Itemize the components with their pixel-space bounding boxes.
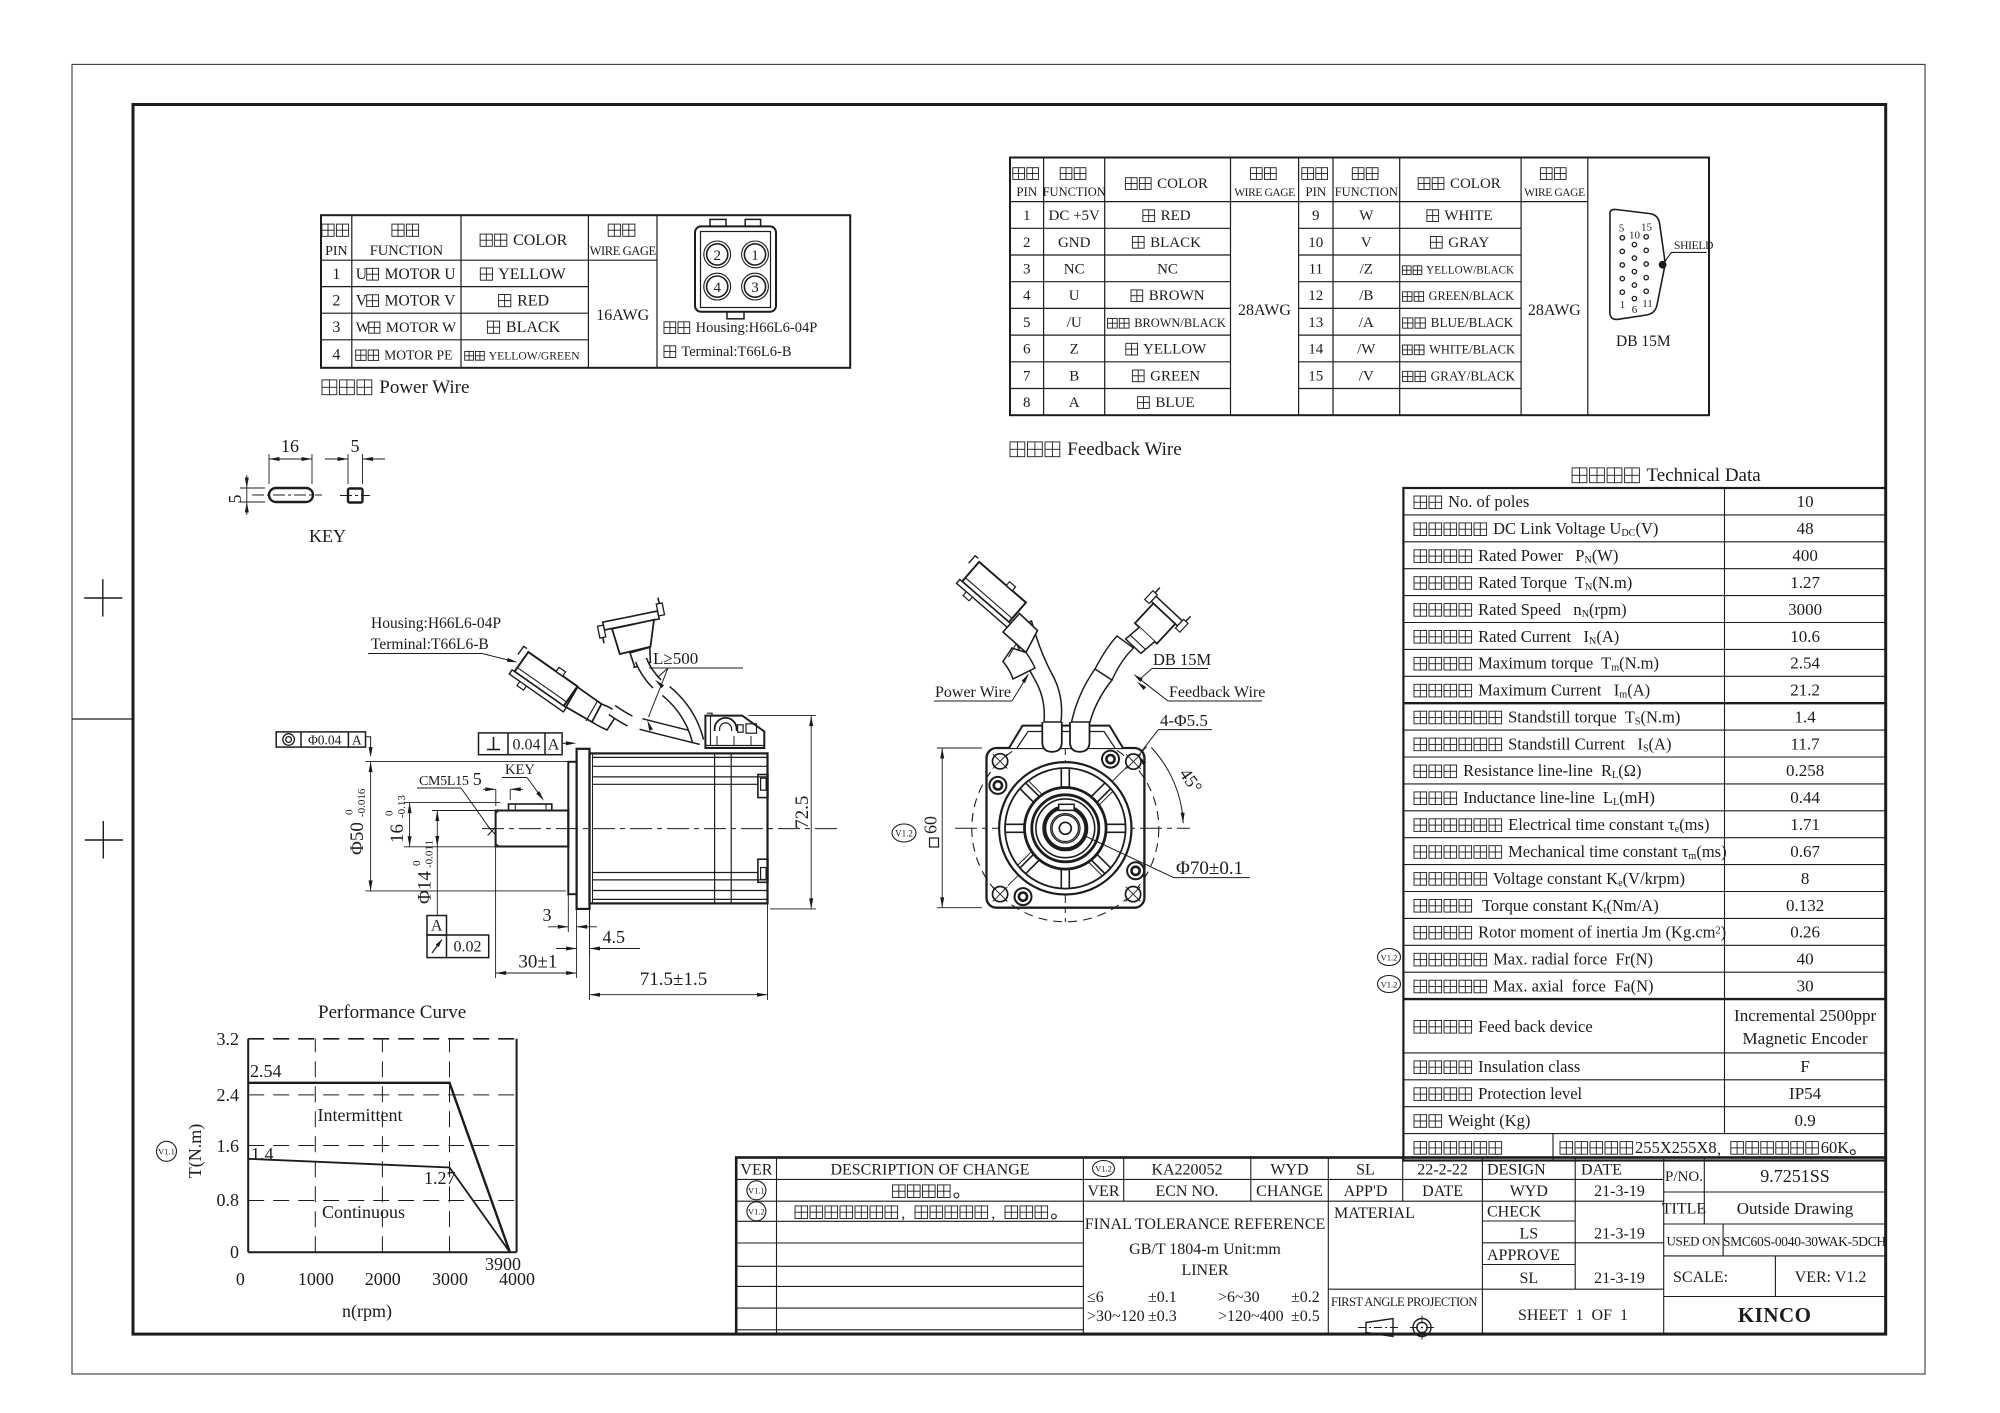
svg-text:APPROVE: APPROVE [1487, 1247, 1560, 1264]
inner drawing frame [133, 105, 1886, 1335]
svg-text:W: W [1359, 208, 1374, 224]
svg-text:±0.1: ±0.1 [1148, 1289, 1177, 1306]
tech data row 4 [1414, 577, 1427, 590]
svg-text:0.67: 0.67 [1790, 842, 1820, 861]
front power boot [1003, 614, 1038, 653]
svg-text:V1.2: V1.2 [748, 1207, 765, 1217]
svg-text:V1.2: V1.2 [895, 829, 913, 839]
svg-text:Max. radial force Fr(N): Max. radial force Fr(N) [1489, 950, 1653, 969]
svg-text:PIN: PIN [1305, 184, 1327, 199]
front view square flange [987, 748, 1145, 908]
svg-text:KEY: KEY [309, 526, 346, 546]
svg-text:SHEET 1 OF 1: SHEET 1 OF 1 [1518, 1307, 1628, 1324]
svg-text:Protection level: Protection level [1474, 1084, 1583, 1103]
front feedback cable upper [1095, 636, 1134, 680]
svg-text:0.9: 0.9 [1794, 1111, 1815, 1130]
DB15 pins column 6-10 [1632, 242, 1636, 246]
front shaft circles [1044, 807, 1086, 849]
right title column grid [1664, 1158, 1886, 1297]
rear clip top [758, 775, 768, 798]
svg-text:V1.1: V1.1 [748, 1186, 765, 1196]
svg-text:7: 7 [1023, 368, 1031, 384]
svg-text:Inductance line-line LL(mH): Inductance line-line LL(mH) [1459, 788, 1655, 808]
svg-text:Z: Z [1070, 342, 1079, 358]
projection target symbol [1410, 1316, 1434, 1340]
svg-text:,: , [991, 1205, 995, 1222]
svg-text:0: 0 [230, 1242, 239, 1262]
svg-text:YELLOW/BLACK: YELLOW/BLACK [1424, 265, 1514, 277]
svg-text:V1.2: V1.2 [1381, 953, 1398, 963]
front view bolt circle dashed [972, 735, 1159, 922]
motor spigot side view [568, 762, 576, 894]
svg-text:1.6: 1.6 [217, 1136, 240, 1156]
svg-text:VER: VER [740, 1162, 772, 1179]
front cover inner circles [1025, 788, 1107, 870]
technical data heading [1572, 468, 1587, 483]
svg-text:3900: 3900 [485, 1254, 521, 1274]
svg-text:4.5: 4.5 [603, 927, 626, 947]
svg-text:16: 16 [387, 824, 408, 843]
tech data row 22 [1414, 1088, 1427, 1101]
svg-text:MOTOR W: MOTOR W [382, 320, 456, 336]
feedback connector side view DB15 [594, 597, 667, 644]
continuous curve [248, 1159, 510, 1252]
svg-text:0: 0 [384, 810, 396, 816]
power connector housing label [664, 322, 676, 334]
svg-text:MOTOR U: MOTOR U [381, 266, 456, 283]
svg-text:60K: 60K [1821, 1138, 1850, 1157]
revision V1.2 description [795, 1206, 808, 1219]
svg-text:TITLE: TITLE [1662, 1201, 1706, 1218]
tech data V1.2 flag row 18 [1378, 949, 1401, 966]
svg-text:GRAY: GRAY [1445, 235, 1490, 251]
technical data table grid [1403, 488, 1885, 1161]
V1.1 flag performance curve [157, 1141, 177, 1161]
svg-text:9.7251SS: 9.7251SS [1760, 1166, 1830, 1186]
ECN row V1.2 flag [1093, 1161, 1115, 1177]
svg-text:No. of poles: No. of poles [1444, 492, 1529, 511]
svg-text:14: 14 [1308, 342, 1324, 358]
svg-text:>6~30: >6~30 [1218, 1289, 1260, 1306]
svg-text:0.8: 0.8 [217, 1190, 240, 1210]
svg-text:21-3-19: 21-3-19 [1594, 1270, 1645, 1287]
tech data row 7 [1414, 657, 1427, 670]
tech data row 5 [1414, 604, 1427, 617]
tech data row 9 [1414, 711, 1427, 724]
svg-text:RED: RED [1157, 208, 1191, 224]
svg-text:CHECK: CHECK [1487, 1204, 1542, 1221]
svg-text:1.4: 1.4 [1794, 708, 1816, 727]
power table header FUNCTION [392, 224, 404, 236]
svg-text:0.132: 0.132 [1786, 896, 1824, 915]
svg-text:Magnetic Encoder: Magnetic Encoder [1743, 1029, 1868, 1048]
svg-text:V: V [1361, 235, 1372, 251]
key section pill [269, 488, 313, 502]
DB15 connector shell [1610, 209, 1665, 319]
svg-text:4-Φ5.5: 4-Φ5.5 [1160, 711, 1208, 730]
svg-text:V1.1: V1.1 [158, 1147, 175, 1157]
svg-text:DC +5V: DC +5V [1049, 208, 1101, 224]
svg-text:5: 5 [473, 769, 482, 789]
svg-text:11.7: 11.7 [1791, 734, 1821, 753]
tech data row 19 [1414, 980, 1427, 993]
svg-text:>120~400: >120~400 [1218, 1308, 1284, 1325]
svg-text:DB 15M: DB 15M [1616, 333, 1671, 350]
svg-text:FUNCTION: FUNCTION [1043, 185, 1106, 199]
svg-text:21-3-19: 21-3-19 [1594, 1226, 1645, 1243]
power table header WIRE GAGE [608, 224, 620, 236]
motor body side view [590, 753, 768, 903]
svg-text:SCALE:: SCALE: [1673, 1269, 1728, 1286]
dim 3 spigot [567, 894, 569, 932]
svg-text:2: 2 [332, 292, 340, 309]
svg-text:3: 3 [751, 280, 759, 296]
svg-text:400: 400 [1792, 546, 1818, 565]
registration cross upper-left [84, 597, 122, 599]
svg-text:Continuous: Continuous [322, 1202, 405, 1222]
key square centerline [340, 495, 370, 497]
concentricity frame phi0.04 A [276, 732, 372, 758]
svg-text:Feedback Wire: Feedback Wire [1063, 439, 1182, 460]
terminal box on motor top [705, 713, 764, 748]
dim square 60 [937, 747, 982, 749]
svg-text:Φ14: Φ14 [415, 871, 436, 904]
svg-text:A: A [548, 737, 560, 754]
svg-text:Intermittent: Intermittent [318, 1105, 403, 1125]
svg-text:60: 60 [921, 816, 941, 834]
title block outline [736, 1158, 1886, 1335]
front cover ribs [1107, 823, 1125, 825]
svg-text:>30~120: >30~120 [1087, 1308, 1145, 1325]
svg-text:CM5L15: CM5L15 [419, 774, 469, 789]
svg-text:V1.2: V1.2 [1095, 1164, 1112, 1174]
svg-text:255X255X8: 255X255X8 [1635, 1138, 1717, 1157]
tech data row 21 [1414, 1061, 1427, 1074]
svg-text:WIRE GAGE: WIRE GAGE [1234, 187, 1295, 199]
svg-text:Incremental 2500ppr: Incremental 2500ppr [1734, 1006, 1876, 1025]
tech data row 10 [1414, 738, 1427, 751]
svg-text:3.2: 3.2 [217, 1029, 240, 1049]
svg-text:21-3-19: 21-3-19 [1594, 1183, 1645, 1200]
power cable boot [566, 687, 602, 722]
svg-text:3: 3 [332, 319, 340, 336]
dim 45 degree arc [1151, 748, 1183, 824]
svg-text:Standstill torque TS(N.m): Standstill torque TS(N.m) [1504, 708, 1680, 728]
svg-text:LINER: LINER [1181, 1262, 1228, 1279]
revision V1.1 flag [747, 1181, 766, 1200]
svg-text:W: W [356, 320, 370, 336]
front view cable stubs [1042, 722, 1062, 752]
svg-text:5: 5 [1619, 223, 1625, 235]
dim 4.5 flange [589, 909, 591, 955]
svg-text:Electrical time constant τe(ms: Electrical time constant τe(ms) [1504, 815, 1709, 835]
front view connector bracket [1009, 726, 1123, 748]
svg-text:1: 1 [751, 248, 759, 264]
svg-text:L≥500: L≥500 [653, 649, 698, 668]
front feedback DB15 connector [1116, 586, 1193, 663]
revision V1.1 description [893, 1185, 906, 1198]
svg-text:Rated Current IN(A): Rated Current IN(A) [1474, 627, 1619, 647]
svg-text:10: 10 [1629, 230, 1641, 242]
front feedback cable [1072, 669, 1113, 722]
feedback connector hood [612, 620, 654, 654]
feedback wire caption [1010, 442, 1025, 457]
svg-text:3000: 3000 [432, 1269, 468, 1289]
front shaft keyway [1059, 804, 1074, 810]
svg-text:Φ70±0.1: Φ70±0.1 [1176, 858, 1243, 879]
svg-text:/Z: /Z [1360, 262, 1373, 278]
svg-text:PIN: PIN [325, 244, 348, 259]
svg-text:1000: 1000 [298, 1269, 334, 1289]
dim 72.5 right [749, 715, 816, 717]
shaft key side view [509, 804, 552, 811]
svg-text:±0.5: ±0.5 [1291, 1308, 1320, 1325]
svg-text:0.258: 0.258 [1786, 761, 1824, 780]
svg-text:Feedback Wire: Feedback Wire [1169, 684, 1265, 701]
tech data row 8 [1414, 684, 1427, 697]
svg-text:8: 8 [1023, 395, 1031, 411]
tech data row 23 [1414, 1115, 1427, 1128]
tech data row 11 [1414, 765, 1427, 778]
svg-text:SL: SL [1356, 1162, 1375, 1179]
revision table [736, 1158, 1083, 1335]
key pill centerline [252, 494, 322, 496]
svg-text:COLOR: COLOR [509, 232, 568, 249]
svg-text:SHIELD: SHIELD [1674, 240, 1713, 252]
power connector terminal label [664, 346, 676, 358]
power table header COLOR [480, 234, 492, 246]
front view mounting holes with cross [993, 754, 1008, 769]
svg-text:1.27: 1.27 [1790, 573, 1820, 592]
svg-text:Weight (Kg): Weight (Kg) [1444, 1111, 1530, 1130]
svg-text:Max. axial force Fa(N): Max. axial force Fa(N) [1489, 976, 1653, 995]
svg-text:COLOR: COLOR [1446, 176, 1501, 192]
svg-text:BROWN: BROWN [1145, 288, 1205, 304]
motor flange side view [577, 749, 590, 909]
DB15 pins column 1-5 [1620, 236, 1624, 240]
svg-text:WHITE: WHITE [1441, 208, 1493, 224]
svg-text:Housing:H66L6-04P: Housing:H66L6-04P [371, 615, 501, 632]
svg-text:U: U [356, 266, 367, 283]
svg-text:A: A [352, 733, 362, 748]
svg-text:KA220052: KA220052 [1151, 1162, 1222, 1179]
svg-text:DATE: DATE [1422, 1183, 1463, 1200]
tech data V1.2 flag row 19 [1378, 976, 1401, 993]
svg-text:Rated Speed nN(rpm): Rated Speed nN(rpm) [1474, 600, 1627, 620]
svg-text:CHANGE: CHANGE [1256, 1183, 1323, 1200]
revision V1.2 flag [747, 1202, 766, 1221]
tech data row 1 [1414, 496, 1427, 509]
svg-text:3: 3 [543, 905, 552, 925]
svg-text:≤6: ≤6 [1087, 1289, 1104, 1306]
svg-text:13: 13 [1308, 315, 1323, 331]
svg-text:2.4: 2.4 [217, 1085, 240, 1105]
svg-text:A: A [1069, 395, 1080, 411]
svg-text:6: 6 [1632, 304, 1638, 316]
svg-text:BLACK: BLACK [502, 319, 561, 336]
dim 5 key position [495, 789, 497, 806]
dim 16 with tolerance [404, 802, 500, 804]
front power cable [1011, 621, 1062, 722]
svg-text:T(N.m): T(N.m) [185, 1124, 206, 1178]
svg-text:71.5±1.5: 71.5±1.5 [640, 969, 707, 990]
key pill dim 5 vertical [240, 487, 265, 489]
svg-text:GREEN: GREEN [1146, 368, 1200, 384]
svg-text:VER: VER [1088, 1183, 1120, 1200]
svg-text:GREEN/BLACK: GREEN/BLACK [1426, 289, 1515, 303]
svg-text:28AWG: 28AWG [1238, 302, 1291, 319]
tech data feed back device row [1414, 1021, 1427, 1034]
svg-text:DESIGN: DESIGN [1487, 1162, 1546, 1179]
svg-text:Insulation class: Insulation class [1474, 1057, 1580, 1076]
svg-text:12: 12 [1308, 288, 1323, 304]
svg-text:0.04: 0.04 [513, 737, 541, 754]
svg-text:DATE: DATE [1581, 1162, 1622, 1179]
svg-text:IP54: IP54 [1789, 1084, 1822, 1103]
svg-text:16AWG: 16AWG [596, 307, 649, 324]
power connector 4-pin housing drawing [695, 219, 776, 318]
dim 71.5±1.5 [589, 909, 591, 1000]
svg-text:2000: 2000 [365, 1269, 401, 1289]
intermittent curve [248, 1083, 510, 1252]
svg-text:MOTOR V: MOTOR V [381, 292, 456, 309]
svg-text:MATERIAL: MATERIAL [1334, 1205, 1415, 1222]
svg-text:Performance Curve: Performance Curve [318, 1002, 466, 1023]
svg-text:5: 5 [351, 436, 360, 456]
svg-text:VER: V1.2: VER: V1.2 [1795, 1269, 1867, 1286]
svg-text:15: 15 [1308, 368, 1323, 384]
svg-text:0.26: 0.26 [1790, 923, 1820, 942]
svg-text:1.71: 1.71 [1790, 815, 1820, 834]
svg-text:WYD: WYD [1270, 1162, 1308, 1179]
svg-text:8: 8 [1801, 869, 1810, 888]
svg-text:BLUE: BLUE [1152, 395, 1195, 411]
svg-text:30: 30 [1797, 976, 1814, 995]
svg-text:SMC60S-0040-30WAK-5DCH: SMC60S-0040-30WAK-5DCH [1723, 1234, 1886, 1249]
svg-text:A: A [431, 918, 443, 935]
feedback table header cells [1302, 168, 1314, 180]
motor shaft side view [496, 811, 569, 847]
svg-text:,: , [1717, 1141, 1721, 1158]
svg-text:5: 5 [1023, 315, 1031, 331]
svg-text:/V: /V [1359, 368, 1374, 384]
svg-text:0.02: 0.02 [454, 939, 482, 956]
svg-text:1: 1 [1620, 299, 1626, 311]
tech data row 16 [1414, 900, 1427, 913]
svg-text:4: 4 [713, 280, 721, 296]
svg-text:/W: /W [1357, 342, 1376, 358]
tech data row 2 [1414, 523, 1427, 536]
svg-text:72.5: 72.5 [792, 796, 813, 829]
svg-text:BLUE/BLACK: BLUE/BLACK [1427, 315, 1513, 330]
svg-text:BROWN/BLACK: BROWN/BLACK [1131, 316, 1226, 330]
front cover outer circles [999, 762, 1131, 894]
svg-text:-0.13: -0.13 [396, 795, 408, 818]
svg-text:Terminal:T66L6-B: Terminal:T66L6-B [371, 636, 489, 653]
svg-text:16: 16 [281, 436, 299, 456]
key pill dim 16 [268, 454, 270, 484]
fold mark left [72, 718, 133, 720]
registration cross lower-left [85, 839, 123, 841]
V1.2 flag front view [892, 824, 916, 842]
svg-text:V1.2: V1.2 [1381, 980, 1398, 990]
svg-text:YELLOW/GREEN: YELLOW/GREEN [486, 349, 580, 362]
svg-text:6: 6 [1023, 342, 1031, 358]
svg-text:-0.011: -0.011 [424, 840, 436, 868]
svg-text:ECN NO.: ECN NO. [1155, 1183, 1218, 1200]
tech data row 14 [1414, 846, 1427, 859]
svg-text:V: V [356, 292, 368, 309]
svg-text:FUNCTION: FUNCTION [1335, 185, 1398, 199]
rear clip bottom [758, 859, 768, 882]
svg-text:4: 4 [1023, 288, 1031, 304]
tech data row 13 [1414, 819, 1427, 832]
svg-text:-0.016: -0.016 [356, 788, 368, 817]
svg-text:22-2-22: 22-2-22 [1417, 1162, 1468, 1179]
svg-text:0: 0 [236, 1269, 245, 1289]
svg-text:KEY: KEY [505, 762, 535, 778]
svg-text:WIRE GAGE: WIRE GAGE [590, 244, 657, 258]
key square dim 5 [347, 454, 349, 484]
front view centerlines [955, 827, 1190, 829]
svg-text:2: 2 [1023, 235, 1031, 251]
svg-text:11: 11 [1309, 262, 1323, 278]
svg-text:10: 10 [1308, 235, 1323, 251]
DB15 shield dot and leader [1659, 261, 1666, 268]
svg-text:2: 2 [713, 248, 721, 264]
svg-text:2.54: 2.54 [250, 1061, 282, 1081]
svg-text:WHITE/BLACK: WHITE/BLACK [1426, 343, 1515, 357]
dim phi50 with tolerance [366, 761, 570, 763]
svg-text:KINCO: KINCO [1738, 1303, 1812, 1327]
tech data row 17 [1414, 926, 1427, 939]
svg-text:9: 9 [1312, 208, 1320, 224]
svg-text:±0.3: ±0.3 [1148, 1308, 1177, 1325]
svg-text:FIRST ANGLE PROJECTION: FIRST ANGLE PROJECTION [1331, 1295, 1477, 1309]
svg-text:Power Wire: Power Wire [935, 684, 1011, 701]
svg-text:0.44: 0.44 [1790, 788, 1820, 807]
dim 30±1 [495, 847, 497, 979]
svg-text:GB/T 1804-m Unit:mm: GB/T 1804-m Unit:mm [1129, 1241, 1281, 1258]
front view diagonal line 45deg [1008, 747, 1147, 886]
svg-text:YELLOW: YELLOW [1140, 342, 1207, 358]
power wire caption [322, 380, 337, 395]
svg-text:1.4: 1.4 [251, 1144, 274, 1164]
svg-text:0: 0 [344, 809, 356, 815]
svg-text:28AWG: 28AWG [1528, 302, 1581, 319]
svg-text:PIN: PIN [1016, 184, 1038, 199]
svg-text:,: , [901, 1205, 905, 1222]
svg-text:21.2: 21.2 [1790, 681, 1820, 700]
svg-text:/B: /B [1359, 288, 1373, 304]
feedback table header cells [1013, 168, 1025, 180]
svg-text:10.6: 10.6 [1790, 627, 1820, 646]
svg-text:P/NO.: P/NO. [1665, 1169, 1703, 1185]
approval table [1328, 1158, 1663, 1335]
power wire table grid [321, 215, 850, 368]
svg-text:4: 4 [332, 346, 340, 363]
ECN table [1083, 1158, 1328, 1335]
DB15 pins column 11-15 [1644, 235, 1648, 239]
svg-text:Φ0.04: Φ0.04 [308, 733, 342, 748]
feedback cable break and lower [666, 691, 698, 741]
svg-text:10: 10 [1797, 492, 1814, 511]
power connector side view [503, 644, 583, 716]
svg-text:BLACK: BLACK [1146, 235, 1201, 251]
tech data row 6 [1414, 631, 1427, 644]
svg-text:WIRE GAGE: WIRE GAGE [1524, 187, 1585, 199]
front view cover screws [1102, 751, 1119, 768]
